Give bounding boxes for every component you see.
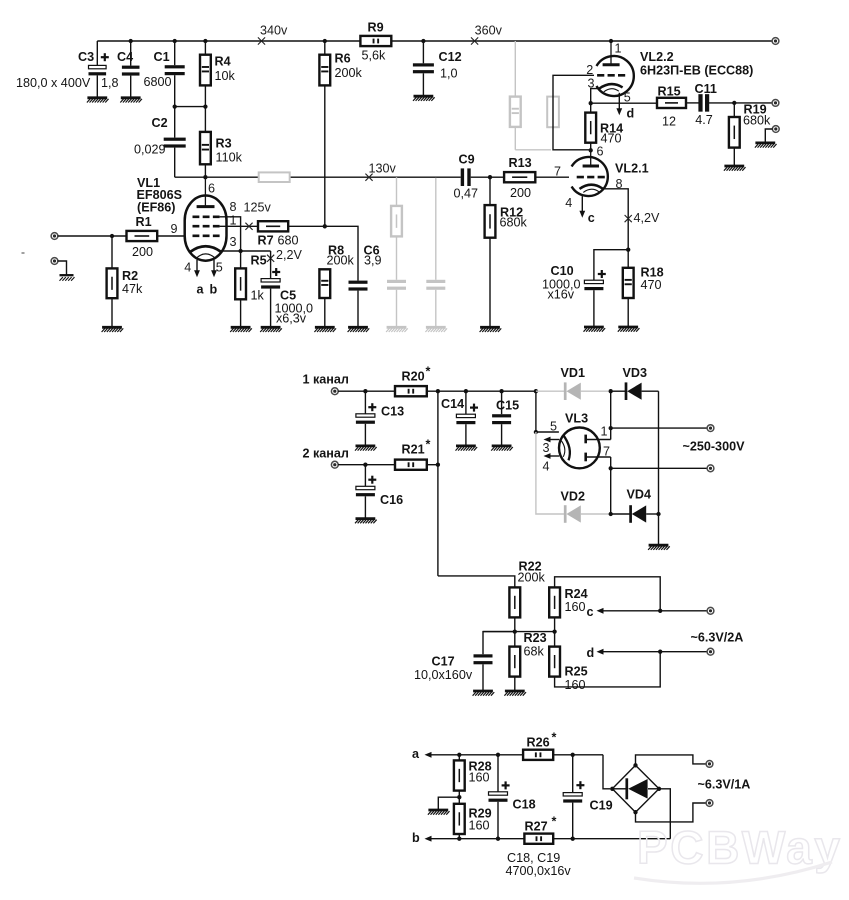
op-amp VL3 rectifier tube <box>543 412 611 474</box>
svg-text:3: 3 <box>588 77 595 91</box>
node AC terminal upper <box>707 425 714 432</box>
resistor R29 160 <box>454 797 492 839</box>
svg-text:R3: R3 <box>216 137 232 151</box>
pin 5 heater lead of VL2.2 (d) <box>616 91 634 121</box>
svg-text:R13: R13 <box>509 156 532 170</box>
ghost resistor chain (not installed) mid <box>391 177 402 280</box>
svg-text:C18: C18 <box>513 798 536 812</box>
svg-text:47k: 47k <box>122 282 143 296</box>
ground (C5) <box>260 327 282 332</box>
ghost capacitor (not installed) mid-left <box>387 280 406 327</box>
resistor R21* <box>395 438 431 470</box>
svg-text:C9: C9 <box>459 153 475 167</box>
svg-text:470: 470 <box>641 278 662 292</box>
svg-text:200: 200 <box>132 245 153 259</box>
svg-text:R21: R21 <box>402 443 425 457</box>
svg-text:R2: R2 <box>122 269 138 283</box>
svg-text:4,2V: 4,2V <box>634 211 661 225</box>
capacitor C9 0,47 <box>454 153 491 201</box>
svg-text:C12: C12 <box>439 50 462 64</box>
wire: b line <box>432 837 525 841</box>
svg-text:C3: C3 <box>78 50 94 64</box>
ghost capacitor (not installed) mid-right <box>426 178 445 326</box>
capacitor C1 <box>144 41 185 107</box>
capacitor C15 <box>492 391 519 445</box>
svg-text:10k: 10k <box>215 69 236 83</box>
svg-text:R23: R23 <box>524 631 547 645</box>
svg-text:1,8: 1,8 <box>101 76 119 90</box>
svg-text:0,47: 0,47 <box>454 187 479 201</box>
svg-text:b: b <box>412 831 420 845</box>
node 1 канал input <box>303 373 349 395</box>
pin 4 heater lead of VL2.1 (c) <box>565 196 595 225</box>
resistor R3 110k <box>200 107 243 178</box>
wire: R21 output joining rail <box>427 391 440 576</box>
svg-text:1 канал: 1 канал <box>303 373 349 387</box>
node b heater tap <box>412 831 432 845</box>
resistor R1 200 <box>127 215 185 259</box>
resistor R23 68k <box>509 631 546 690</box>
svg-text:1k: 1k <box>251 289 265 303</box>
svg-text:5: 5 <box>216 261 223 275</box>
wire: VL1 pin1 to R7 <box>220 225 258 227</box>
svg-text:125v: 125v <box>244 201 272 215</box>
node 125v probe <box>244 201 272 230</box>
ground (C14) <box>456 446 478 451</box>
capacitor C13 <box>356 391 404 445</box>
svg-text:VD2: VD2 <box>561 490 586 504</box>
svg-text:x6,3v: x6,3v <box>276 312 307 326</box>
svg-text:C11: C11 <box>695 82 717 96</box>
node input terminal <box>51 233 58 240</box>
svg-text:c: c <box>588 211 595 225</box>
capacitor C10 1000,0 x16v <box>542 250 628 326</box>
svg-text:VL2.2: VL2.2 <box>640 50 674 64</box>
wire: C1-R4 bottom crossbar <box>173 104 208 108</box>
resistor R19 680k <box>729 103 771 166</box>
svg-text:C10: C10 <box>551 264 574 278</box>
wire: VL2.1 cathode pin8 down <box>603 189 629 250</box>
svg-text:680: 680 <box>278 234 299 248</box>
ground (input shield) <box>60 275 75 281</box>
svg-text:68k: 68k <box>524 645 545 659</box>
ground (C16) <box>355 519 377 524</box>
resistor R13 200 <box>490 156 569 200</box>
wire: R27 to bridge return <box>553 789 670 841</box>
node heater terminal c <box>707 607 714 614</box>
svg-text:680k: 680k <box>500 216 528 230</box>
svg-text:7: 7 <box>603 445 610 459</box>
wire: DC+ filter rail <box>427 389 538 393</box>
node output terminal top <box>772 38 779 45</box>
capacitor C2 <box>134 107 186 178</box>
ground (R12) <box>480 327 502 332</box>
svg-text:2 канал: 2 канал <box>303 447 349 461</box>
svg-text:1: 1 <box>615 42 622 56</box>
node 340v probe <box>258 24 288 45</box>
wire: VL3 pin1 AC output <box>609 391 708 439</box>
svg-text:4: 4 <box>184 261 191 275</box>
wire: channel1 to R20 <box>338 389 395 393</box>
resistor R6 200k <box>319 41 362 226</box>
resistor R25 160 <box>549 632 587 692</box>
svg-text:2,2V: 2,2V <box>276 248 303 262</box>
svg-text:C18, C19: C18, C19 <box>507 851 560 865</box>
capacitor C19 <box>563 755 612 839</box>
junction VL2.2 cathode / R14 / R15 <box>589 101 593 105</box>
svg-text:6800: 6800 <box>144 75 172 89</box>
node a heater tap <box>412 747 432 761</box>
svg-text:a: a <box>412 747 420 761</box>
svg-text:VL3: VL3 <box>565 412 588 426</box>
svg-text:b: b <box>210 283 218 297</box>
svg-text:d: d <box>627 107 635 121</box>
svg-text:R20: R20 <box>402 370 425 384</box>
svg-text:~250-300V: ~250-300V <box>683 440 746 454</box>
resistor R2 47k <box>107 236 143 326</box>
svg-text:C13: C13 <box>381 405 404 419</box>
wire: bridge AC bottom to terminal <box>636 803 707 822</box>
svg-text:200k: 200k <box>518 571 546 585</box>
wire: VL2.2 grid feedback to node 6 <box>553 75 594 150</box>
ground (C17) <box>473 691 495 696</box>
svg-text:130v: 130v <box>369 162 397 176</box>
wire: R24 top to c node <box>555 577 661 611</box>
ground (ghost mid-left) <box>386 327 408 332</box>
svg-text:VL2.1: VL2.1 <box>615 162 649 176</box>
svg-text:12: 12 <box>662 115 676 129</box>
wire: R26 to bridge <box>553 753 610 789</box>
svg-text:7: 7 <box>554 165 561 179</box>
stray mark left margin <box>22 252 25 254</box>
svg-text:R4: R4 <box>215 55 231 69</box>
svg-text:C1: C1 <box>154 50 170 64</box>
resistor R15 12 <box>591 85 686 129</box>
resistor R22 200k <box>509 560 545 632</box>
svg-text:~6.3V/1A: ~6.3V/1A <box>698 778 751 792</box>
svg-text:R6: R6 <box>335 52 351 66</box>
junction R28/R29 centre tap <box>438 795 461 809</box>
svg-text:R7: R7 <box>258 234 274 248</box>
ground (C13) <box>355 446 377 451</box>
resistor R26* <box>523 731 556 760</box>
resistor R12 680k <box>485 177 528 326</box>
resistor R8 200k <box>319 244 354 327</box>
svg-text:340v: 340v <box>260 24 288 38</box>
node 2,2V probe <box>267 248 303 262</box>
svg-text:*: * <box>552 731 557 745</box>
svg-text:0,029: 0,029 <box>134 143 166 157</box>
capacitor C11 4.7 <box>686 82 772 127</box>
svg-text:680k: 680k <box>743 114 771 128</box>
svg-text:160: 160 <box>565 600 586 614</box>
svg-text:x16v: x16v <box>548 288 575 302</box>
resistor R9 5,6k <box>360 21 391 63</box>
node 2 канал input <box>303 447 349 469</box>
ground (C3) <box>87 98 109 103</box>
node 130v probe <box>365 162 396 181</box>
op-amp VL1 EF806S (EF86) pentode <box>170 177 236 261</box>
svg-text:C4: C4 <box>117 50 133 64</box>
svg-text:180,0 x 400V: 180,0 x 400V <box>16 76 91 90</box>
watermark PCBWay <box>634 822 843 884</box>
ghost resistor (not installed) on 130v line <box>259 172 290 182</box>
svg-text:R15: R15 <box>658 85 681 99</box>
capacitor C16 <box>356 465 403 518</box>
svg-text:5: 5 <box>550 420 557 434</box>
wire: rectifier ground <box>658 514 660 544</box>
svg-text:VD3: VD3 <box>623 366 648 380</box>
diode VD1 (ghost) <box>536 366 609 400</box>
wire: a line <box>432 753 524 757</box>
node AC terminal 2 (6.3V winding) <box>706 800 713 807</box>
capacitor C12 1,0 <box>413 41 462 95</box>
op-amp VL2.2 triode <box>586 41 634 103</box>
resistor R20* <box>395 365 431 397</box>
capacitor C18 <box>489 755 536 839</box>
wire: heater line d <box>587 646 708 660</box>
ghost resistor (not installed) on feedback wire <box>547 97 559 128</box>
svg-text:R25: R25 <box>565 665 588 679</box>
node 360v probe <box>471 24 503 45</box>
svg-text:C15: C15 <box>496 399 519 413</box>
svg-text:R5: R5 <box>251 254 267 268</box>
resistor R28 160 <box>454 755 492 797</box>
ghost wire to VD2 <box>536 432 564 514</box>
svg-text:R1: R1 <box>136 215 152 229</box>
ground (C12) <box>413 96 435 101</box>
diode bridge rectifier <box>610 763 661 814</box>
svg-text:110k: 110k <box>216 151 243 165</box>
junction R6/R7/R8/C6 <box>323 224 327 228</box>
junction C11/R19 <box>732 101 736 105</box>
capacitor C5 1000,0 x6,3v <box>261 251 313 326</box>
svg-text:4: 4 <box>543 460 550 474</box>
svg-text:6Н23П-ЕВ (ECC88): 6Н23П-ЕВ (ECC88) <box>640 64 753 78</box>
resistor R14 470 <box>585 103 623 150</box>
svg-text:200k: 200k <box>335 66 363 80</box>
svg-text:C19: C19 <box>590 799 613 813</box>
diode VD3 <box>609 366 659 400</box>
wire: VD3 anode down to ground bus <box>658 391 660 514</box>
svg-text:360v: 360v <box>475 24 503 38</box>
wire: bridge AC top to terminal <box>636 755 707 765</box>
wire: shield terminal to ground <box>58 261 67 275</box>
ground (C10) <box>584 327 606 332</box>
svg-text:R27: R27 <box>525 820 548 834</box>
ground (C4) <box>120 98 142 103</box>
svg-text:200: 200 <box>510 186 531 200</box>
node AC terminal lower <box>707 465 714 472</box>
wire: VL1 g3 pin8 to cathode node <box>220 217 241 251</box>
svg-text:1,0: 1,0 <box>440 67 458 81</box>
pin 4 heater arrow of VL3 <box>544 453 560 459</box>
svg-text:*: * <box>426 438 431 452</box>
svg-text:1: 1 <box>230 214 237 228</box>
svg-text:2: 2 <box>586 63 593 77</box>
ghost resistor (not installed) to 360v rail <box>510 41 551 150</box>
ground (R2) <box>102 327 124 332</box>
node 4,2V probe <box>625 211 660 225</box>
svg-text:C17: C17 <box>432 655 455 669</box>
svg-text:R24: R24 <box>565 587 588 601</box>
svg-text:*: * <box>426 365 431 379</box>
junction C10/R18 <box>626 248 630 252</box>
svg-text:C14: C14 <box>441 397 464 411</box>
wire: heater line c <box>587 605 708 619</box>
ground (R23) <box>504 691 526 696</box>
svg-text:8: 8 <box>230 200 237 214</box>
wire: 130v node rail to C9 <box>175 175 461 179</box>
svg-text:VD4: VD4 <box>627 488 652 502</box>
svg-text:10,0x160v: 10,0x160v <box>414 668 473 682</box>
svg-text:PCBWay: PCBWay <box>637 822 843 874</box>
svg-text:5: 5 <box>624 91 631 105</box>
svg-text:3,9: 3,9 <box>364 253 382 267</box>
ground (R19) <box>724 166 746 171</box>
svg-text:4: 4 <box>565 196 572 210</box>
wire: rail corner down to VL3 pin5 <box>534 391 559 434</box>
ground (C6) <box>348 327 370 332</box>
wire: rail down to R22 <box>438 576 515 588</box>
svg-text:3: 3 <box>230 235 237 249</box>
node heater terminal d <box>707 648 714 655</box>
svg-text:6: 6 <box>597 145 604 159</box>
wire: R25 bottom to d node <box>555 652 661 687</box>
svg-text:R9: R9 <box>368 21 384 35</box>
node output terminal mid <box>772 100 779 107</box>
diode VD4 <box>609 488 661 523</box>
value C18, C19 4700,0x16v <box>506 851 572 878</box>
wire: bias bus <box>483 629 557 633</box>
svg-text:C16: C16 <box>380 493 403 507</box>
tube VL1 labels <box>137 176 183 215</box>
ground (R18) <box>618 327 640 332</box>
svg-text:1: 1 <box>601 425 608 439</box>
wire: +340v/+360v top supply rail <box>97 39 772 43</box>
junction node 6 <box>589 145 604 159</box>
wire: VL3 pin7 AC output <box>609 457 708 514</box>
node shield terminal <box>51 258 58 265</box>
capacitor C14 <box>441 391 478 445</box>
svg-text:c: c <box>587 605 594 619</box>
svg-text:200k: 200k <box>327 253 355 267</box>
resistor R24 160 <box>549 587 587 632</box>
wire: VL1 cathode pin3 node <box>221 249 271 253</box>
svg-text:3: 3 <box>543 441 550 455</box>
node output ground terminal <box>765 126 779 142</box>
ground (rectifier) <box>648 545 670 550</box>
svg-text:4700,0x16v: 4700,0x16v <box>506 864 572 878</box>
svg-text:5,6k: 5,6k <box>362 49 387 63</box>
svg-text:470: 470 <box>601 132 622 146</box>
ground (centre tap) <box>428 810 450 815</box>
svg-text:160: 160 <box>565 678 586 692</box>
wire: input to R1 <box>58 234 127 238</box>
ground (R8) <box>314 327 336 332</box>
resistor R4 10k <box>200 41 236 107</box>
svg-text:(EF86): (EF86) <box>137 201 176 215</box>
svg-text:9: 9 <box>170 222 177 236</box>
op-amp VL2.1 triode <box>554 150 623 196</box>
resistor R5 1k <box>235 251 266 326</box>
svg-text:VD1: VD1 <box>561 366 586 380</box>
ground (ghost mid-right) <box>425 327 447 332</box>
svg-text:160: 160 <box>469 771 490 785</box>
svg-text:6: 6 <box>208 182 215 196</box>
capacitor C17 10,0x160v <box>414 632 515 690</box>
pin 3 heater arrow of VL3 <box>544 437 560 443</box>
capacitor C3 <box>16 41 109 97</box>
node AC terminal 1 (6.3V winding) <box>706 761 713 768</box>
wire: channel2 to R21 <box>338 463 395 467</box>
tube VL2.2 labels <box>640 50 753 78</box>
svg-text:R26: R26 <box>527 736 550 750</box>
resistor R7 680 <box>258 221 325 247</box>
svg-text:a: a <box>197 283 205 297</box>
capacitor C6 3,9 <box>325 226 382 326</box>
resistor R18 470 <box>623 250 664 326</box>
svg-text:~6.3V/2A: ~6.3V/2A <box>691 631 744 645</box>
ground (R5) <box>230 327 252 332</box>
svg-text:d: d <box>587 646 595 660</box>
svg-text:160: 160 <box>469 819 490 833</box>
diode VD2 (ghost) <box>561 490 609 523</box>
ground (C15) <box>491 446 513 451</box>
svg-text:*: * <box>552 815 557 829</box>
svg-text:4.7: 4.7 <box>695 113 713 127</box>
resistor R27* <box>524 815 556 844</box>
ground (output terminal) <box>755 143 777 148</box>
svg-text:C2: C2 <box>152 116 168 130</box>
pin 4/5 heater leads of VL1 (a,b) <box>184 260 223 297</box>
junction C9/R13/R12 <box>488 175 492 179</box>
capacitor C4 <box>101 41 140 97</box>
